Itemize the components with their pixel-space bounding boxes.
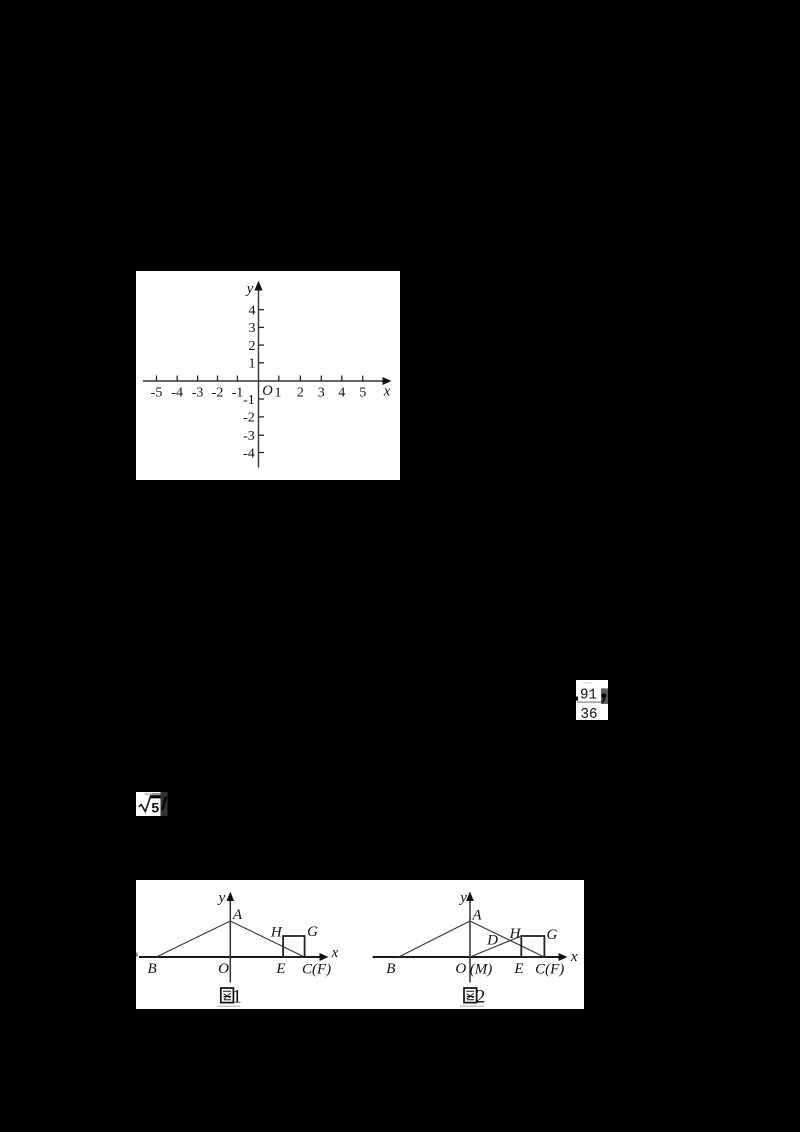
svg-text:-5: -5 [151, 386, 163, 401]
fraction bar [577, 701, 601, 702]
svg-text:D: D [486, 932, 498, 948]
svg-text:G: G [546, 927, 557, 943]
fig1 caption underline [217, 1005, 240, 1006]
grey patch top-right [601, 688, 608, 703]
svg-text:H: H [270, 924, 283, 940]
svg-text:1: 1 [232, 986, 242, 1007]
svg-text:C(F): C(F) [535, 961, 564, 977]
sqrt(5) box [136, 792, 168, 816]
y-axis [258, 285, 260, 468]
fig2 side BA [399, 921, 470, 957]
svg-text:E: E [513, 961, 523, 977]
medium grey strip [152, 792, 161, 795]
svg-text:5: 5 [359, 386, 366, 401]
black slash mark [162, 796, 166, 809]
light grey strip [144, 792, 151, 794]
svg-text:5: 5 [151, 799, 159, 815]
radical sign [139, 796, 151, 811]
svg-text:2: 2 [476, 986, 486, 1007]
svg-text:O: O [262, 383, 273, 399]
svg-text:y: y [217, 890, 226, 906]
fig2 caption box glyph [464, 988, 477, 1003]
svg-text:-3: -3 [243, 429, 255, 444]
x ticks [157, 376, 363, 382]
radical overbar [150, 795, 161, 798]
fig1 y-axis [229, 896, 231, 983]
svg-text:36: 36 [581, 706, 598, 720]
svg-text:O: O [455, 961, 466, 977]
svg-text:A: A [232, 906, 243, 922]
fig2 segment OH [470, 936, 521, 957]
svg-text:B: B [148, 961, 157, 977]
white background [136, 792, 161, 816]
fig1 x-axis arrowhead [320, 953, 329, 961]
fig1 x-axis [139, 956, 322, 958]
fig1 y-axis arrowhead [227, 891, 235, 901]
fig1 side AC [230, 921, 304, 957]
svg-text:G: G [307, 924, 318, 940]
svg-text:-4: -4 [243, 446, 255, 461]
svg-text:1: 1 [249, 357, 256, 372]
comma mark [601, 693, 606, 698]
y ticks [259, 310, 265, 453]
fig1 caption box glyph [221, 988, 234, 1003]
dark grey patch [161, 792, 168, 816]
svg-text:2: 2 [249, 339, 256, 354]
svg-text:91: 91 [580, 686, 597, 703]
svg-text:-4: -4 [171, 386, 183, 401]
svg-text:y: y [245, 281, 254, 297]
svg-text:4: 4 [338, 386, 345, 401]
svg-text:(M): (M) [470, 961, 493, 977]
svg-text:y: y [458, 890, 467, 906]
svg-text:A: A [471, 907, 482, 923]
faint top dash [583, 682, 592, 683]
fig2 x-axis arrowhead [559, 953, 568, 961]
fig2 y-axis arrowhead [466, 891, 474, 901]
svg-text:B: B [386, 961, 395, 977]
y tick labels [243, 304, 255, 462]
fig1 left-edge grey tick [136, 952, 138, 956]
x-axis [143, 380, 385, 382]
small dash left edge [575, 696, 578, 700]
fig2 square EHGC [521, 936, 544, 957]
x tick labels [151, 386, 367, 401]
svg-text:-1: -1 [243, 393, 255, 408]
y-axis arrowhead [254, 281, 262, 291]
fraction 91/36 box [574, 680, 608, 720]
fig1 square EHGC [283, 936, 305, 957]
x-axis arrowhead [383, 377, 392, 385]
svg-text:-2: -2 [243, 411, 255, 426]
fig2 side AC [470, 921, 544, 957]
svg-text:-1: -1 [232, 386, 244, 401]
svg-text:C(F): C(F) [302, 961, 331, 977]
svg-text:x: x [331, 944, 339, 960]
svg-text:-3: -3 [192, 386, 204, 401]
fig1 side BA [156, 921, 230, 957]
svg-text:x: x [570, 948, 578, 964]
svg-text:E: E [275, 961, 285, 977]
fig2 y-axis [469, 896, 471, 983]
svg-text:1: 1 [275, 386, 282, 401]
svg-text:O: O [218, 961, 229, 977]
svg-text:-2: -2 [212, 386, 224, 401]
svg-text:H: H [509, 926, 522, 942]
white background of fraction [576, 680, 608, 720]
coordinate-plane figure box [136, 271, 400, 480]
svg-text:x: x [383, 384, 391, 400]
svg-text:4: 4 [249, 304, 256, 319]
svg-text:2: 2 [297, 386, 304, 401]
triangles figure box (fig1 + fig2) [136, 880, 584, 1009]
fig2 x-axis [373, 956, 561, 958]
svg-text:3: 3 [318, 386, 325, 401]
svg-text:3: 3 [249, 321, 256, 336]
fig2 caption underline [460, 1005, 484, 1006]
